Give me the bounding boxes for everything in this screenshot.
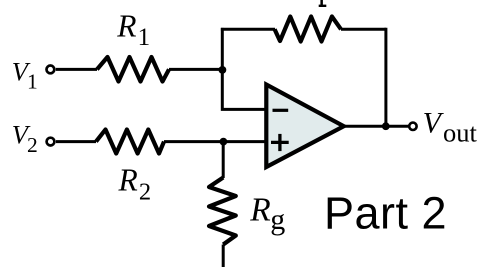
svg-text:Part 2: Part 2 [324,188,447,239]
wire Rg to bottom edge [222,245,225,268]
op-amp minus sign [273,109,289,112]
resistor Rg [209,178,236,245]
terminal Vout [409,123,416,130]
svg-text:1: 1 [138,24,151,51]
svg-text:1: 1 [27,70,38,94]
svg-text:out: out [443,117,478,147]
wire op-amp output [344,125,409,128]
wire R2 to op-amp non-inverting input [164,140,267,143]
resistor Rf (feedback) [275,17,341,42]
svg-text:2: 2 [139,179,151,206]
svg-text:R: R [116,9,136,44]
op-amp plus sign [271,141,289,144]
resistor R2 [96,130,164,154]
terminal V2 [47,138,55,146]
wire node A down to op-amp inverting input [222,70,267,110]
node A junction dot [219,66,227,74]
label Rf (cut off at top edge, bottom of subscript 1 visible) [320,0,323,5]
wire feedback left vertical [221,28,224,70]
wire R1 to node A [169,68,222,71]
terminal V1 [47,66,55,74]
resistor R1 [97,57,169,82]
wire feedback top left [221,28,275,31]
op-amp U1 [266,85,344,168]
output node junction dot [382,122,390,130]
wire V1 to R1 [56,68,97,71]
svg-text:R: R [118,163,138,198]
svg-text:g: g [270,203,285,236]
svg-text:R: R [249,192,270,229]
wire feedback top right [341,28,386,31]
wire feedback right vertical down to output node [384,28,387,126]
node B junction dot [220,138,228,146]
wire node B down to Rg [222,142,225,178]
wire V2 to R2 [56,140,96,143]
svg-text:2: 2 [27,133,38,157]
